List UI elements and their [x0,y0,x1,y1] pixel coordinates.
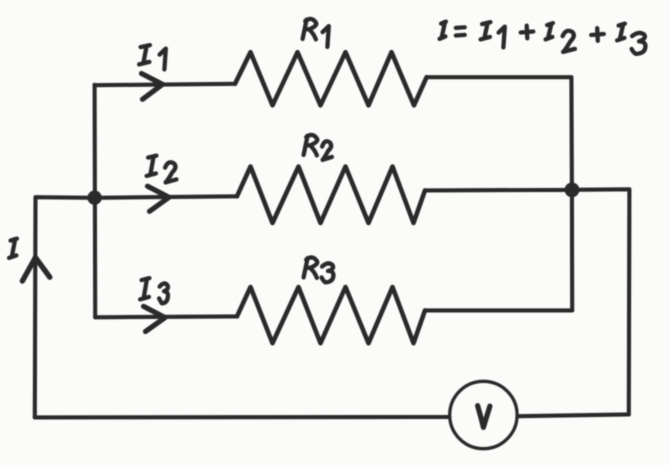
junction node left [87,191,101,205]
arrowhead I3 [144,306,166,331]
label I3 [140,278,149,299]
wire: branch 1 left lead [95,84,235,85]
wire: left branch vertical bus [93,85,98,317]
label R2 [304,135,318,155]
voltmeter label V [478,406,490,428]
label R1 [303,19,317,39]
junction node right [565,183,580,198]
arrowhead I2 [148,186,170,211]
label I1 [139,45,150,64]
wire: branch 3 left lead [95,314,237,319]
wire: branch 2 left lead [95,196,237,198]
wire: branch 3 right lead [425,308,572,312]
label R3 [304,257,318,277]
resistor R1 [235,52,427,105]
wire: left outer loop (mid-left corner down to bottom) [35,197,95,417]
label I2 [147,156,157,176]
arrowhead I1 [142,74,163,100]
wire: bottom right segment from voltmeter to right outer corner [519,414,629,416]
label I (main current) [9,239,17,258]
resistor R2 [237,167,425,224]
wire: right node down to branch 3 [570,190,574,311]
wire: branch 2 right lead into node [425,188,572,193]
wire: bottom left segment to voltmeter [35,415,448,419]
equation I = I1 + I2 + I3 [440,22,646,54]
resistor R3 [237,287,425,343]
arrowhead I (main current, pointing up) [22,258,49,282]
voltmeter V circle [450,381,517,448]
wire: right outer vertical up to top-right corner [572,189,629,414]
wire: branch 1 right lead + drop to right node [427,77,572,190]
